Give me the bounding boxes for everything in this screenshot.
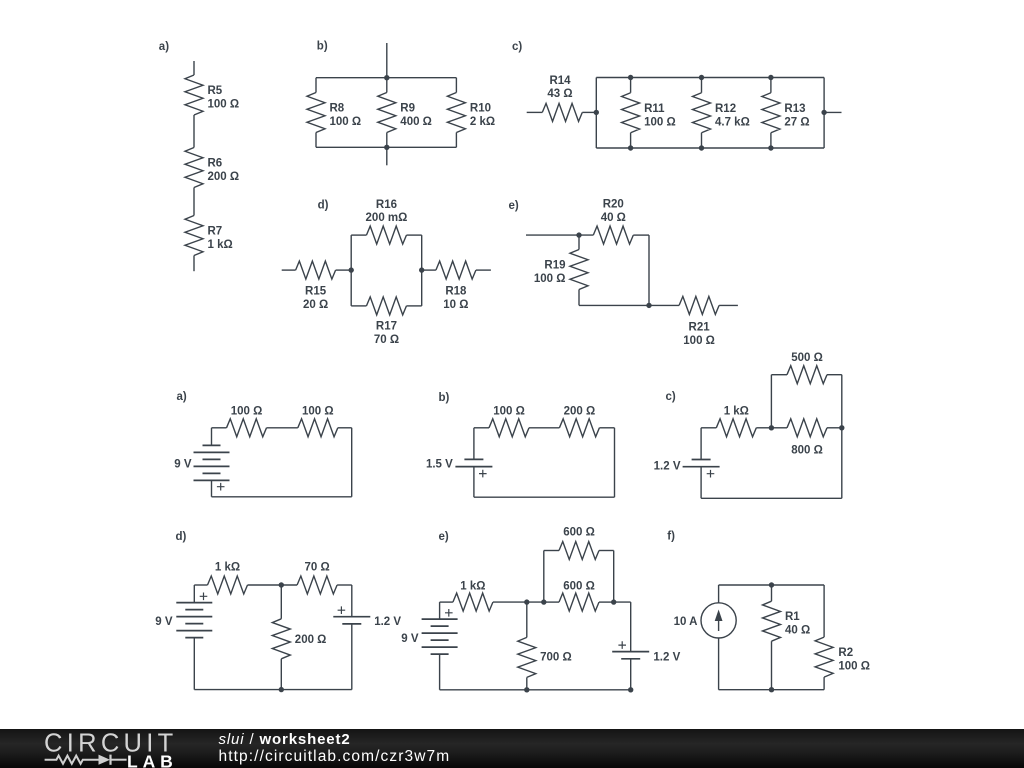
wire battery bottom a3 [211,480,213,496]
svg-text:R9: R9 [400,103,415,115]
wire battery bottom e4 [439,654,441,690]
junction R13 bottom [768,145,773,150]
junction right bottom e4 [628,687,633,692]
wire right bottom d4 [351,624,353,690]
resistor 200 d4 [272,619,290,659]
wire top left d4 [194,584,207,586]
svg-text:100 Ω: 100 Ω [208,99,240,111]
wire bottom stub b [386,147,388,165]
svg-text:1.2 V: 1.2 V [653,651,680,663]
junction box left c [594,110,599,115]
resistor R16 [366,226,406,244]
wire 700 top e4 [526,602,528,637]
wire bottom rail f4 [719,689,825,691]
svg-text:100 Ω: 100 Ω [644,116,676,128]
junction box left d [349,267,354,272]
wire box right d [421,235,423,306]
wire between b3 [529,427,559,429]
resistor R10 [447,93,465,133]
wire battery top c3 [700,428,702,460]
battery 1.2V d4 [333,606,370,624]
wire battery top a3 [211,428,213,446]
wire R10 top [455,78,457,93]
svg-text:a): a) [159,41,169,53]
resistor R5 [185,75,203,115]
resistor R14 [542,103,582,121]
svg-text:70 Ω: 70 Ω [304,562,329,574]
wire right stub c [824,111,841,113]
wire 1k to 70 d4 [248,584,298,586]
svg-text:1 kΩ: 1 kΩ [208,239,233,251]
wire R9 top [386,78,388,93]
svg-text:R17: R17 [376,321,397,333]
wire top branch right c3 [827,374,842,376]
wire 200 bottom d4 [280,659,282,690]
current source I1 10A [701,603,736,638]
resistor 200 b3 [559,419,599,437]
wire left stub d [282,269,296,271]
wire R1 top [771,585,773,601]
wire top left c3 [701,427,716,429]
svg-text:R11: R11 [644,103,665,115]
svg-text:100 Ω: 100 Ω [838,661,870,673]
wire right top d4 [351,585,353,617]
svg-text:43 Ω: 43 Ω [547,88,572,100]
wire bottom rail c [596,147,824,149]
wire bottom rail e4 [440,689,631,691]
resistor R15 [296,261,336,279]
svg-text:R12: R12 [715,103,736,115]
junction branch left e4 [541,599,546,604]
wire battery top b3 [473,428,475,460]
wire top right d4 [337,584,352,586]
wire bottom rail d4 [194,689,351,691]
junction parallel left c3 [769,425,774,430]
svg-text:b): b) [439,392,450,404]
wire right vertical e [648,235,650,305]
svg-text:R7: R7 [208,226,223,238]
wire top branch left e4 [544,550,559,552]
svg-text:600 Ω: 600 Ω [563,581,595,593]
wire R6-R7 [193,188,195,216]
svg-text:R14: R14 [549,75,571,87]
svg-text:R19: R19 [544,260,565,272]
wire top rail left d [351,234,366,236]
svg-text:500 Ω: 500 Ω [791,352,823,364]
wire box left d [350,235,352,306]
svg-text:R6: R6 [208,158,223,170]
svg-text:d): d) [318,199,329,211]
wire box to R18 [422,269,436,271]
wire right stub d [476,269,491,271]
svg-text:1 kΩ: 1 kΩ [724,405,749,417]
svg-text:27 Ω: 27 Ω [784,116,809,128]
junction bottom d4 [279,687,284,692]
wire R1 bottom [771,641,773,690]
resistor R9 [378,93,396,133]
wire box right c [823,78,825,149]
junction box right c [821,110,826,115]
resistor R19 [570,250,588,290]
svg-text:R5: R5 [208,85,223,97]
wire R14 to box [582,111,596,113]
svg-text:R1: R1 [785,611,800,623]
wire 200 top d4 [280,585,282,619]
wire battery top e4 [439,602,441,619]
junction top b [384,75,389,80]
svg-text:200 Ω: 200 Ω [295,634,327,646]
junction box right d [419,267,424,272]
svg-text:1 kΩ: 1 kΩ [215,562,240,574]
resistor R21 [679,296,719,314]
svg-text:100 Ω: 100 Ω [231,405,263,417]
wire right c3 [841,428,843,499]
wire R20 right [633,234,649,236]
wire top rail b [316,77,456,79]
svg-text:9 V: 9 V [155,616,173,628]
wire R12 top [701,78,703,93]
battery 1.2V e4 [612,641,649,659]
resistor R8 [307,93,325,133]
svg-text:a): a) [177,391,187,403]
svg-text:1.5 V: 1.5 V [426,459,453,471]
battery 1.5V b3 [455,459,492,477]
wire 600 right e4 [599,601,614,603]
wire left stub c [527,111,543,113]
svg-text:2 kΩ: 2 kΩ [470,116,495,128]
svg-text:9 V: 9 V [174,459,192,471]
wire top rail right d [406,234,421,236]
wire bottom rail b [316,146,456,148]
svg-text:1.2 V: 1.2 V [374,616,401,628]
wire right a3 [351,428,353,497]
wire top left e4 [440,601,453,603]
resistor 70 d4 [297,576,337,594]
junction 700 top e4 [524,599,529,604]
wire branch down c3 [841,375,843,428]
svg-text:200 mΩ: 200 mΩ [366,212,408,224]
wire R8 bottom [315,133,317,148]
wire left e [526,234,593,236]
wire R13 top [770,78,772,93]
resistor 100 b3 [489,419,529,437]
svg-text:100 Ω: 100 Ω [493,405,525,417]
wire battery top d4 [193,585,195,603]
wire to right corner e4 [614,601,631,603]
wire right top e4 [630,602,632,652]
wire right bottom e4 [630,659,632,690]
svg-text:1.2 V: 1.2 V [654,461,681,473]
resistor R1 [763,601,781,641]
resistor R7 [185,216,203,256]
wire battery bottom c3 [700,467,702,499]
svg-text:200 Ω: 200 Ω [564,405,596,417]
junction bottom e [646,303,651,308]
svg-text:R8: R8 [330,103,345,115]
resistor R18 [436,261,476,279]
resistor R12 [693,93,711,133]
battery 9V a3 [194,445,230,490]
junction top d4 [279,582,284,587]
svg-text:b): b) [317,41,328,53]
junction R13 top [768,75,773,80]
junction R1 top [769,582,774,587]
wire top left b3 [474,427,489,429]
wire branch up c3 [770,375,772,428]
svg-text:800 Ω: 800 Ω [791,445,823,457]
wire battery bottom d4 [193,638,195,690]
wire top rail c [596,77,824,79]
junction branch right e4 [611,599,616,604]
svg-text:R13: R13 [784,103,805,115]
resistor 800 c3 [787,419,827,437]
svg-text:c): c) [512,41,522,53]
svg-text:R15: R15 [305,286,327,298]
svg-text:f): f) [667,531,675,543]
junction R11 top [628,75,633,80]
resistor 1k e4 [453,593,493,611]
wire R11 top [630,78,632,93]
battery 9V d4 [176,593,212,638]
battery 1.2V c3 [683,460,720,478]
resistor 1k d4 [208,576,248,594]
wire bottom b3 [474,496,615,498]
wire branch down e4 [613,551,615,603]
resistor 700 e4 [518,637,536,677]
svg-text:R21: R21 [689,322,711,334]
svg-text:LAB: LAB [127,751,178,768]
resistor 600 top e4 [559,542,599,560]
svg-text:c): c) [666,391,676,403]
svg-text:40 Ω: 40 Ω [785,625,810,637]
wire bottom rail left d [351,305,366,307]
svg-text:4.7 kΩ: 4.7 kΩ [715,116,750,128]
svg-text:R16: R16 [376,199,397,211]
svg-text:100 Ω: 100 Ω [683,335,715,347]
wire top stub [193,61,195,75]
junction 700 bottom e4 [524,687,529,692]
junction R1 bottom [769,687,774,692]
wire main to 600 e4 [544,601,559,603]
wire top stub b [386,43,388,78]
junction R11 bottom [628,145,633,150]
wire R15 to box [336,269,352,271]
wire top branch right e4 [599,550,614,552]
resistor 1k c3 [716,419,756,437]
wire bottom stub [193,256,195,272]
wire R19 bottom [578,290,580,306]
wire right b3 [614,428,616,497]
svg-text:d): d) [176,531,187,543]
wire top branch left c3 [771,374,787,376]
resistor R20 [593,226,633,244]
wire R10 bottom [455,133,457,148]
resistor R11 [622,93,640,133]
resistor R2 [815,637,833,677]
wire R9 bottom [386,133,388,148]
wire battery bottom b3 [473,467,475,498]
wire between resistors a3 [267,427,298,429]
wire R5-R6 [193,115,195,148]
svg-text:100 Ω: 100 Ω [302,405,334,417]
wire box left c [595,78,597,149]
svg-text:9 V: 9 V [401,633,419,645]
wire source top f4 [718,585,720,603]
wire bottom e [579,304,649,306]
CircuitLab logo [30,729,220,768]
wire bottom a3 [212,496,352,498]
wire main to 800 c3 [771,427,787,429]
svg-text:100 Ω: 100 Ω [534,273,566,285]
svg-text:e): e) [509,200,519,212]
resistor 600 main e4 [559,593,599,611]
svg-text:40 Ω: 40 Ω [601,212,626,224]
battery 9V e4 [422,609,458,654]
wire source bottom f4 [718,638,720,690]
wire top rail f4 [719,584,825,586]
wire R2 top [823,585,825,637]
junction R19 top [576,232,581,237]
svg-text:700 Ω: 700 Ω [540,651,572,663]
svg-text:1 kΩ: 1 kΩ [460,581,485,593]
wire bottom c3 [701,497,842,499]
wire R8 top [315,78,317,93]
wire R11 bottom [630,133,632,148]
wire 1k to junction e4 [493,601,544,603]
wire 1k to junction c3 [756,427,771,429]
svg-text:10 A: 10 A [674,616,698,628]
wire bottom rail right d [406,305,421,307]
resistor R13 [762,93,780,133]
wire 700 bottom e4 [526,677,528,689]
svg-text:R18: R18 [445,286,467,298]
junction bottom b [384,145,389,150]
wire 800 right c3 [827,427,842,429]
wire R13 bottom [770,133,772,148]
resistor 100 second a3 [298,419,338,437]
resistor 100 first a3 [227,419,267,437]
svg-text:400 Ω: 400 Ω [400,116,432,128]
wire top right b3 [599,427,614,429]
resistor 500 c3 [787,366,827,384]
junction R12 top [699,75,704,80]
svg-text:200 Ω: 200 Ω [208,171,240,183]
svg-text:600 Ω: 600 Ω [563,527,595,539]
svg-text:20 Ω: 20 Ω [303,299,328,311]
svg-text:R10: R10 [470,103,491,115]
svg-text:10 Ω: 10 Ω [443,299,468,311]
wire R12 bottom [701,133,703,148]
junction parallel right c3 [839,425,844,430]
wire right stub e [719,304,738,306]
svg-text:R2: R2 [838,647,853,659]
svg-text:R20: R20 [603,199,624,211]
wire branch up e4 [543,551,545,603]
wire top right a3 [338,427,352,429]
wire to R21 [649,304,679,306]
svg-text:70 Ω: 70 Ω [374,334,399,346]
resistor R6 [185,148,203,188]
svg-text:100 Ω: 100 Ω [330,116,362,128]
logo resistor-diode line [45,756,99,764]
resistor R17 [366,297,406,315]
junction R12 bottom [699,145,704,150]
footer bar [0,729,1024,768]
wire R19 top [578,235,580,249]
wire R2 bottom [823,677,825,690]
svg-text:e): e) [439,531,449,543]
wire top left a3 [212,427,227,429]
